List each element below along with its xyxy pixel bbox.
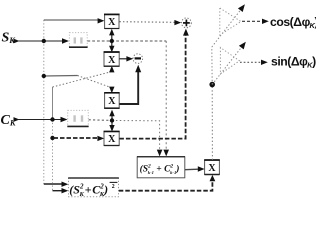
squared-magnitude box (k-1) (137, 157, 185, 178)
wire cross line B from C to multiplier M2 (52, 87, 54, 120)
delay register D1 (69, 33, 88, 48)
multiplier M1 (104, 14, 120, 28)
svg-text:cos(ΔφK): cos(ΔφK) (270, 15, 316, 30)
junction S(k-1) (110, 39, 114, 43)
wire C(k-1) up into M3 (111, 116, 113, 121)
amplifier A2 (220, 48, 239, 75)
junction S cross (42, 74, 46, 78)
svg-text:X: X (108, 17, 116, 28)
wire C branch vertical down (52, 120, 54, 191)
amplifier A1 (220, 8, 241, 35)
wire M5 output gain line up (211, 86, 213, 160)
multiplier M5 (204, 160, 220, 175)
wire S(k-1) up into M1 (111, 35, 113, 41)
adder node (182, 18, 192, 28)
wire D1 output S(k-1) row (87, 40, 166, 42)
wire M1 output to adder (119, 21, 174, 24)
subtractor node (133, 54, 143, 64)
wire C(k-1) down into M4 (111, 121, 113, 127)
junction C(k-1) (110, 118, 114, 122)
wire S branch into normalizer (44, 183, 62, 185)
junction C input (50, 117, 54, 121)
wire gain control into amplifier A2 (212, 48, 241, 85)
svg-text:2: 2 (112, 184, 115, 190)
normalizer box (Sk^2+Ck^2)^-1/2 (68, 178, 119, 198)
wire sin output arrow (240, 61, 262, 63)
junction gain node (209, 82, 215, 88)
wire S(k-1) down into squared-magnitude box (165, 41, 167, 150)
svg-text:X: X (108, 96, 116, 107)
wire cos output arrow (242, 20, 263, 22)
wire C_K input line (14, 117, 20, 122)
wire S branch up to multiplier M1 (43, 20, 45, 41)
wire D2 output C(k-1) row (89, 119, 112, 122)
junction C to M4 (50, 136, 54, 140)
wire M2 output to subtractor (119, 58, 127, 60)
wire normalizer output right and up into M5 (119, 181, 213, 191)
multiplier M2 (104, 52, 120, 66)
wire C into M4 left (54, 137, 99, 139)
wire S branch vertical down (43, 41, 45, 184)
delay register D2 (67, 110, 88, 126)
svg-text:X: X (108, 134, 116, 145)
wire squared-magnitude output to M5 (185, 168, 199, 171)
wire M4 output right and up to adder (119, 36, 185, 139)
wire S(k-1) down into M2 (111, 41, 113, 47)
wire gain control into amplifier A1 (211, 47, 213, 85)
multiplier M3 (104, 93, 119, 108)
multiplier M4 (104, 131, 120, 145)
svg-text:(S2K+C2K): (S2K+C2K) (69, 182, 108, 198)
svg-text:X: X (108, 55, 116, 66)
svg-text:X: X (208, 163, 216, 174)
wire M3 output up to subtractor (119, 72, 138, 104)
wire S_K input line (14, 39, 20, 44)
wire C branch into normalizer (53, 190, 63, 192)
junction S input (42, 39, 46, 43)
wire C(k-1) right and down into squared-magnitude box (112, 121, 160, 151)
wire cross line A from S to multiplier M3 (44, 75, 78, 78)
